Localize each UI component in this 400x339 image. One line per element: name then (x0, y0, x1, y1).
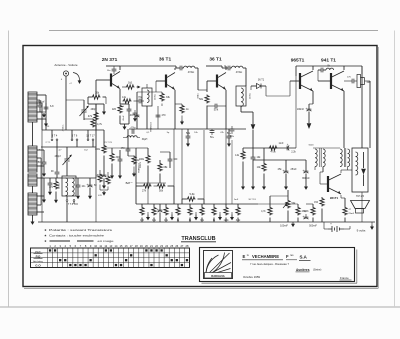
svg-text:470: 470 (162, 114, 167, 117)
wire IFT1 base link (198, 89, 207, 91)
svg-text:G.O: G.O (35, 264, 41, 268)
wire det to driver (266, 95, 290, 97)
switch contacts 5 6 (71, 139, 73, 141)
svg-text:TRANSCO: TRANSCO (138, 163, 141, 173)
resistor 33k bottom x202 (200, 207, 204, 216)
wire vertical 232 low (231, 140, 233, 204)
capacitor osc series (55, 172, 60, 174)
wire diode connections (251, 85, 257, 87)
capacitor 470u on rail (132, 129, 134, 134)
svg-text:250: 250 (37, 161, 42, 164)
svg-text:400: 400 (367, 81, 372, 84)
capacitor IFT2 (228, 66, 230, 71)
wire base T6 (322, 172, 324, 178)
wire rail y178 (44, 177, 96, 179)
top rail right (296, 65, 362, 67)
ground bottom x220 (219, 215, 221, 218)
ground bottom x148 (147, 215, 149, 218)
ground L2 (77, 194, 79, 196)
capacitor cluster 10n (76, 185, 81, 187)
svg-text:36 T1: 36 T1 (258, 79, 265, 82)
transistor 36T1 first (166, 73, 175, 90)
wire left column long (41, 130, 43, 222)
ground L1 (49, 190, 51, 192)
svg-text:36 T1: 36 T1 (159, 57, 172, 63)
svg-text:7 rue Jean-Jacques - Roussea: 7 rue Jean-Jacques - Rousseau 7 (250, 262, 289, 266)
svg-text:500mF: 500mF (309, 225, 317, 228)
svg-text:2N 371: 2N 371 (102, 57, 118, 63)
svg-text:47k: 47k (88, 114, 93, 118)
resistor 4,7k osc (91, 119, 95, 128)
wire det verticals (240, 106, 242, 112)
svg-text:472kc: 472kc (236, 71, 243, 74)
svg-text:BAT *: BAT * (126, 181, 133, 185)
ground 44 low (43, 198, 45, 200)
polarized cap feedback (287, 146, 289, 151)
wire mid rail (129, 128, 246, 130)
capacitor out coupling (352, 79, 354, 84)
svg-text:(Seine): (Seine) (313, 268, 321, 272)
svg-text:25mF: 25mF (291, 168, 298, 171)
driver transformer (315, 149, 317, 167)
wire collector T2 (175, 68, 176, 70)
resistor 68k audio (158, 163, 162, 172)
wire audio横 y152 (160, 151, 170, 153)
svg-text:4,7k: 4,7k (97, 122, 103, 126)
wire mid links (128, 155, 134, 157)
wire vertical 46 (45, 95, 47, 130)
resistor 100k audio (146, 155, 150, 164)
wire rail 204 right (258, 203, 298, 205)
svg-text:50+: 50+ (227, 132, 232, 135)
capacitor 50k decouple (186, 136, 191, 138)
svg-text:50 k: 50 k (214, 109, 219, 112)
wire rail y147 (41, 146, 96, 148)
resistor 10k base h (92, 95, 101, 99)
polarized cap 100 mid (102, 175, 107, 177)
svg-text:5 T 6: 5 T 6 (72, 135, 78, 138)
capacitor 10k driver (251, 157, 256, 159)
battery 9V (328, 226, 344, 232)
svg-text:472kc: 472kc (250, 92, 252, 99)
switch table filled cells (49, 249, 51, 251)
wire vertical 41 taps (40, 158, 42, 205)
capacitor T5 in (321, 68, 323, 73)
capacitor 470 small mid (126, 149, 131, 151)
capacitor emitter bypass (127, 109, 132, 111)
wire front rail y130 (42, 129, 104, 131)
second transformer (340, 149, 342, 167)
resistor 300 midB (110, 153, 114, 162)
volume potentiometer 50k (286, 200, 290, 209)
ferrite rod section 3 (28, 174, 37, 186)
wire AGC down arrow (252, 112, 254, 124)
wire emitter T3 (225, 90, 227, 129)
wire top rail 2 (206, 65, 222, 67)
wire base T1 (96, 79, 111, 81)
ground between (292, 223, 294, 224)
wire osc connections (66, 170, 68, 176)
ground stage1 (124, 124, 126, 127)
capacitor det 50+ (230, 129, 235, 131)
wire driver rail y160 (253, 159, 306, 161)
capacitor T3 bypass (215, 104, 217, 109)
polarized cap 500mF (304, 217, 309, 219)
capacitor top small (44, 107, 49, 109)
ground zig pair (103, 191, 105, 192)
svg-text:5-6k: 5-6k (189, 192, 195, 196)
ground bottom x196 (195, 215, 197, 218)
svg-text:36 T1: 36 T1 (209, 57, 222, 63)
resistor 470k feedback (269, 146, 278, 150)
svg-text:5000: 5000 (309, 145, 315, 147)
rod tap wires lower (37, 149, 44, 151)
resistor 5-6k h (187, 197, 196, 201)
wire base T5 (317, 70, 319, 81)
wire 67 bottom (66, 202, 68, 223)
diode in box (363, 152, 365, 168)
resistor 150k driver (296, 207, 300, 216)
resistor 10k driver2 (262, 163, 266, 172)
ground 50+ right (228, 142, 230, 144)
boxed IF transformer B (236, 86, 246, 106)
capacitor small g1 (133, 113, 138, 115)
wire emitter T4 (312, 91, 314, 104)
rod tap wires upper (37, 94, 46, 96)
wire collector T1 (119, 66, 121, 70)
resistor 4,7k audio2 (268, 207, 272, 216)
capacitor IFT1 (180, 66, 182, 71)
earphone 400ohm (357, 75, 361, 88)
wire emitter T5 (343, 91, 345, 148)
cap collector small (112, 69, 117, 71)
wire T4 bias vert (295, 66, 297, 76)
resistor 47k front (94, 112, 98, 121)
wire antenna node (37, 99, 40, 101)
ground rod tap (45, 119, 47, 121)
resistor emitter 1k5 (118, 105, 122, 114)
variable capacitor CV1 (80, 106, 89, 116)
ground L3 (89, 194, 91, 196)
transistor 941T1 (331, 71, 344, 91)
wire base T4 (290, 80, 300, 82)
svg-text:100mF: 100mF (297, 109, 305, 111)
resistor 150 base out (320, 198, 324, 207)
wire collector T5 (343, 66, 345, 70)
capacitor cluster L1 (48, 183, 53, 185)
svg-text:300: 300 (116, 156, 121, 159)
ground battery right (371, 225, 373, 227)
wire earphone link (344, 80, 352, 82)
wire out y204 (306, 203, 313, 205)
svg-text:1k5: 1k5 (112, 107, 117, 111)
svg-text:3 T 4: 3 T 4 (52, 135, 58, 138)
wire bottom rail (38, 221, 375, 223)
polarized cap 100mF T4 (307, 109, 312, 111)
svg-text:TRANSCLUB: TRANSCLUB (181, 236, 215, 242)
wire y148 center (136, 147, 148, 149)
transistor 961T1 (328, 174, 341, 194)
coil 30uH (127, 136, 137, 138)
svg-text:P.O: P.O (36, 255, 41, 259)
svg-text:TRANSCO: TRANSCO (150, 122, 153, 132)
wire rail y204 (136, 203, 258, 205)
switch contacts 3 T 4 (51, 130, 53, 138)
resistor emitter T2 (180, 105, 184, 114)
resistor 4,7k out (311, 207, 315, 216)
svg-text:E: E (243, 254, 246, 259)
switch table grid (31, 248, 190, 268)
svg-text:H.P 2,5: H.P 2,5 (356, 195, 365, 198)
ground L1b (55, 198, 57, 200)
IF transformer2 472kc (232, 66, 243, 68)
polarized cap 25mF (284, 171, 289, 173)
resistor 47k zig left (106, 176, 110, 185)
svg-text:O.C: O.C (35, 250, 41, 254)
wire collector T3 (225, 66, 227, 70)
logo RADIALVA box (204, 251, 233, 279)
resistor 120k bottom x226 (224, 207, 228, 216)
wire right vert 362 (361, 66, 363, 74)
svg-text:VECHAMBRE: VECHAMBRE (252, 254, 279, 259)
wire antenna down (65, 76, 67, 130)
wire verticals audio down (147, 183, 149, 204)
ferrite rod section 4 (28, 193, 37, 215)
svg-text:Antenne - Voiture: Antenne - Voiture (54, 63, 78, 67)
resistor 100k midA (102, 145, 106, 154)
polarized cap 100mF bottom mid (158, 210, 163, 212)
switch contacts 7 8 below osc (66, 200, 68, 202)
IF transformer1 472kc (184, 66, 195, 68)
capacitor 40mF cluster (135, 115, 140, 117)
ground driver x243 (242, 184, 244, 187)
switch table outer box (31, 248, 190, 268)
svg-text:Asnières: Asnières (296, 268, 310, 272)
wire emitter T6 (340, 195, 342, 198)
svg-text:9 volts: 9 volts (357, 229, 366, 233)
capacitor midC (118, 159, 123, 161)
svg-text:470k: 470k (270, 151, 276, 154)
ground bottom x232 (231, 215, 233, 218)
ground driver x253 (252, 184, 254, 187)
ground rod bottom (32, 219, 34, 222)
resistor 3-3k bottom x238 (236, 207, 240, 216)
title block outer (200, 248, 355, 282)
svg-text:470µ: 470µ (131, 127, 137, 129)
svg-text:Octobre 1959: Octobre 1959 (243, 275, 260, 279)
svg-text:965T1: 965T1 (291, 58, 305, 64)
capacitor 40Kpf antenna (38, 105, 43, 107)
ground 50k (187, 142, 189, 144)
svg-text:472kc: 472kc (188, 71, 195, 74)
svg-text:F: F (286, 254, 289, 259)
wire det to audio (265, 86, 267, 96)
resistor 1k bottom x178 (176, 207, 180, 216)
logo RADIALVA rays (206, 253, 231, 277)
resistor 1k bottom x190 (188, 207, 192, 216)
capacitor 600 audio (168, 159, 173, 161)
variable capacitor CV2 (63, 155, 72, 165)
schematic border frame (23, 46, 377, 287)
ferrite rod section 2 (28, 146, 37, 172)
svg-text:490pf: 490pf (55, 155, 61, 158)
wire vertical 204 long (203, 130, 205, 199)
wire emitter T2 (174, 90, 176, 129)
diode T4 (308, 114, 310, 123)
wire vertical 42 (41, 103, 43, 130)
ground driver x264 (263, 184, 265, 187)
wire 57 down (56, 178, 58, 204)
svg-text:50+: 50+ (210, 136, 215, 139)
wire base node y104 (88, 103, 104, 105)
wire transfo2 link (296, 147, 340, 149)
resistor 100 bottom x142 (140, 207, 144, 216)
grounds mid-left (103, 184, 105, 186)
page scan edge bottom (0, 306, 400, 308)
svg-text:1mF: 1mF (279, 142, 284, 145)
wire mid horiz y148 (104, 147, 136, 149)
wire vertical 174 long (173, 129, 175, 186)
transistor 965T1 (300, 71, 313, 91)
wire collector T6 (340, 170, 342, 173)
wire vertical 226 long (225, 129, 227, 204)
svg-text:800mF: 800mF (302, 177, 310, 180)
wire audio net (136, 185, 143, 187)
wire transfo taps (314, 167, 316, 170)
logo RADIALVA name (205, 273, 232, 279)
capacitor 470 cluster (156, 115, 161, 117)
wire battery leads (324, 228, 328, 230)
wire IFT1 right (195, 67, 198, 69)
resistor 10k bottom x154 (152, 207, 156, 216)
wire rod links (32, 122, 34, 146)
resistor 15k bottom x166 (164, 207, 168, 216)
svg-text:1mF: 1mF (234, 199, 239, 201)
wire emitter T1 (119, 89, 121, 104)
svg-text:40mF: 40mF (123, 115, 125, 121)
svg-text:en rouge: en rouge (98, 239, 114, 243)
coil T5 in (326, 68, 334, 70)
svg-text:21 T 23: 21 T 23 (104, 142, 112, 144)
svg-text:Polarité : suivant Transist: Polarité : suivant Transistors (49, 228, 113, 232)
capacitor mid rail 50+ (210, 131, 215, 133)
svg-text:100k: 100k (95, 148, 101, 151)
resistor 33k cluster (160, 93, 164, 102)
wire volume link (287, 190, 289, 196)
svg-text:941 T1: 941 T1 (321, 58, 336, 64)
ground driver x306 (305, 184, 307, 187)
wire 96 to bottom (95, 178, 97, 222)
ground T2 emitter (181, 120, 183, 122)
wire collector T4 (312, 66, 314, 70)
polarized cap 800mF (304, 171, 309, 173)
top rail stage1 (106, 65, 120, 67)
switch contacts 15 T 17 (87, 139, 89, 141)
oscillator transformer box (62, 176, 76, 196)
resistor 14k T2 bias (123, 99, 132, 103)
wire feedback rail y148 (243, 147, 296, 149)
svg-text:30µH: 30µH (142, 139, 148, 141)
wire transfoA top (146, 84, 148, 88)
svg-text:100k: 100k (139, 158, 145, 161)
resistor 50k h (157, 184, 166, 188)
wire vertical 44 segment (43, 171, 45, 178)
resistor 1k small mid (132, 156, 136, 165)
resistor 47 out (343, 207, 347, 216)
svg-text:100mF: 100mF (280, 225, 288, 228)
wire top front end (66, 99, 84, 101)
ground battery left (323, 222, 325, 229)
antenna jack (63, 71, 68, 76)
resistor 27k h (143, 184, 152, 188)
wire base T2 (156, 80, 166, 82)
wire cluster verticals (146, 106, 148, 129)
ground 104 (103, 104, 105, 109)
resistor cluster 47n (54, 181, 58, 190)
rc collector net 1k5 (126, 85, 135, 89)
wire IFT2 right (243, 67, 246, 69)
polarized cap 50mF left (88, 185, 93, 187)
svg-text:472kc: 472kc (155, 93, 157, 100)
capacitor 70k T2 bias (139, 99, 141, 104)
ferrite rod section 1 (28, 92, 37, 122)
output transformer box (352, 148, 368, 192)
svg-text:RADIALVA: RADIALVA (211, 274, 225, 278)
resistor 27k zig left (98, 174, 102, 183)
svg-text:1k5: 1k5 (128, 82, 133, 85)
svg-text:7 T 8: 7 T 8 (68, 204, 74, 206)
page scan edge left (8, 31, 10, 308)
svg-text:2 T 1: 2 T 1 (46, 142, 52, 144)
ground driver x286 (285, 184, 287, 187)
ground small g1 (134, 117, 136, 118)
resistor T3 bias 50k (205, 95, 209, 104)
legend dashes (50, 240, 71, 242)
svg-text:18 T 19: 18 T 19 (248, 199, 256, 201)
ground antenna branch (43, 113, 45, 114)
wire emitter node (120, 103, 129, 105)
speaker (351, 201, 370, 209)
ground left tuning (43, 171, 45, 174)
svg-text:S.A: S.A (300, 255, 308, 260)
wire bottom right verticals (361, 192, 363, 222)
capacitor 250 left (42, 162, 47, 164)
resistor 14k (241, 151, 245, 160)
transistor 2N371 (111, 72, 120, 89)
svg-text:2,2k: 2,2k (291, 151, 296, 154)
svg-text:25mF: 25mF (349, 213, 355, 215)
svg-text:50pf: 50pf (120, 106, 124, 108)
svg-text:France: France (340, 276, 349, 280)
resistor 1k bottom x214 (212, 207, 216, 216)
wire audio y183 (136, 182, 166, 184)
page scan edge top (49, 30, 378, 32)
wire top rail mid (120, 65, 176, 67)
wire y92 link (137, 91, 162, 93)
wire vertical 96 long (95, 104, 97, 178)
antenna arrow (73, 73, 80, 81)
svg-text:961T1: 961T1 (330, 196, 339, 200)
wire vertical 182 long (181, 129, 183, 199)
svg-text:Contacts : touche enclench: Contacts : touche enclenchée (49, 234, 104, 238)
boxed IF transformer A (142, 88, 152, 106)
capacitor 50+ right (227, 136, 232, 138)
page scan edge right (394, 31, 396, 308)
wire base T3 (207, 80, 217, 82)
transistor 36T1 second (217, 73, 226, 90)
wire T2 link (175, 103, 182, 105)
wire right vert 370 (369, 81, 371, 148)
